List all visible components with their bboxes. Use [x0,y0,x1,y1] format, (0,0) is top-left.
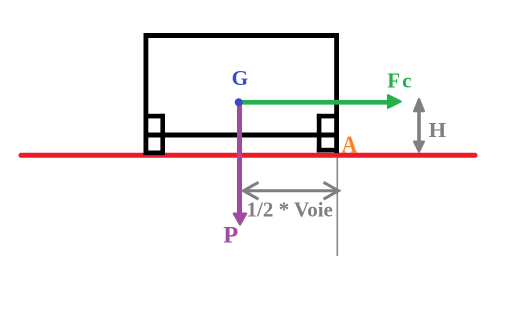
svg-text:Fc: Fc [387,68,411,92]
force Fc arrow (green) [241,95,401,108]
vehicle body rectangle [144,33,340,155]
ground line (red) [21,153,475,158]
left wheel [144,114,166,155]
node A vertical reference line [337,150,339,256]
dimension arrow 1/2*Voie (gray, double-headed horizontal) [244,182,339,199]
center of gravity point G (blue dot) [235,98,243,106]
svg-text:A: A [342,131,358,158]
svg-text:P: P [223,222,238,248]
svg-text:1/2 * Voie: 1/2 * Voie [247,197,333,221]
force P arrow (purple) [234,104,246,225]
dimension arrow H (gray, double-headed vertical) [414,99,424,152]
svg-text:H: H [429,118,447,142]
svg-text:G: G [232,66,249,90]
right wheel [317,114,339,153]
